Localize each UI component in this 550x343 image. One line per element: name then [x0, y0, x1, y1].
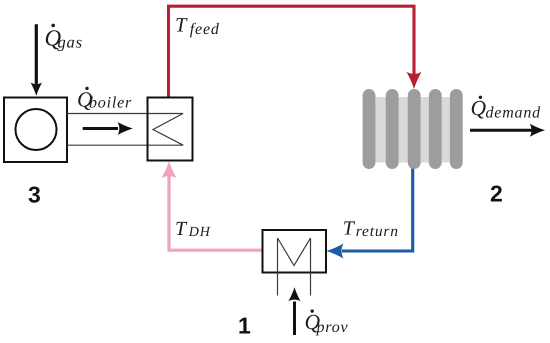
radiator fin 2	[386, 89, 399, 169]
M symbol left leg	[277, 238, 279, 296]
svg-text:Q: Q	[471, 96, 487, 120]
dot over Q_prov	[311, 309, 314, 312]
svg-text:T: T	[175, 218, 188, 240]
svg-text:T: T	[175, 14, 188, 36]
label T_return	[343, 218, 399, 241]
arrowhead T_return into heat pump	[326, 244, 343, 259]
arrowhead T_feed into radiator	[407, 72, 422, 89]
radiator fin 5	[450, 89, 463, 169]
svg-text:demand: demand	[486, 105, 542, 122]
label T_feed	[175, 14, 220, 38]
dot over Q_boiler	[85, 87, 88, 90]
label T_DH	[175, 218, 211, 240]
svg-text:feed: feed	[190, 21, 220, 38]
M symbol right leg	[310, 238, 312, 296]
arrowhead T_DH into heat exchanger	[162, 161, 177, 178]
radiator fin 1	[363, 89, 376, 169]
svg-text:2: 2	[490, 181, 503, 207]
arrow Q_demand (heat output from radiator)	[470, 124, 545, 137]
wire T_feed (red supply pipe from heat exchanger to radiator)	[169, 6, 422, 97]
M symbol V middle	[278, 238, 311, 266]
dot over Q_gas	[51, 24, 55, 28]
boiler unit 3 (box with circle)	[4, 98, 67, 163]
svg-text:prov: prov	[316, 319, 349, 336]
arrow Q_gas (gas input into boiler)	[31, 24, 42, 96]
svg-text:3: 3	[28, 182, 41, 208]
arrowhead Q_boiler	[118, 122, 133, 135]
wire boiler-to-exchanger top connection + exchanger coil	[67, 114, 183, 146]
radiator fin 4	[429, 89, 442, 169]
svg-text:DH: DH	[188, 225, 211, 240]
label Q_gas	[45, 24, 83, 52]
svg-text:return: return	[356, 223, 399, 240]
arrow Q_boiler (heat flow boiler to exchanger)	[83, 122, 133, 135]
radiator body panel	[363, 97, 462, 163]
wire T_DH (pink district-heating pipe from heat pump to heat exchanger)	[162, 161, 263, 250]
svg-text:1: 1	[238, 313, 251, 339]
heat pump unit 1 (box with M symbol)	[263, 230, 327, 296]
arrowhead Q_prov	[288, 287, 300, 301]
label Q_prov	[305, 309, 349, 336]
svg-text:boiler: boiler	[89, 95, 132, 112]
boiler burner circle	[16, 109, 57, 150]
radiator fin 3	[408, 89, 421, 169]
arrowhead Q_demand	[530, 124, 545, 137]
arrowhead Q_gas	[31, 83, 42, 96]
label Q_demand	[471, 96, 542, 122]
dot over Q_demand	[479, 96, 482, 99]
wire T_return (blue return pipe from radiator to heat pump)	[326, 167, 412, 259]
label Q_boiler	[77, 87, 132, 112]
radiator 2 (heat demand)	[363, 89, 463, 169]
heat exchanger box (between boiler and district loop)	[148, 98, 193, 161]
svg-text:gas: gas	[58, 33, 83, 52]
svg-text:T: T	[343, 218, 356, 240]
arrow Q_prov (heat input into heat pump)	[288, 287, 300, 335]
